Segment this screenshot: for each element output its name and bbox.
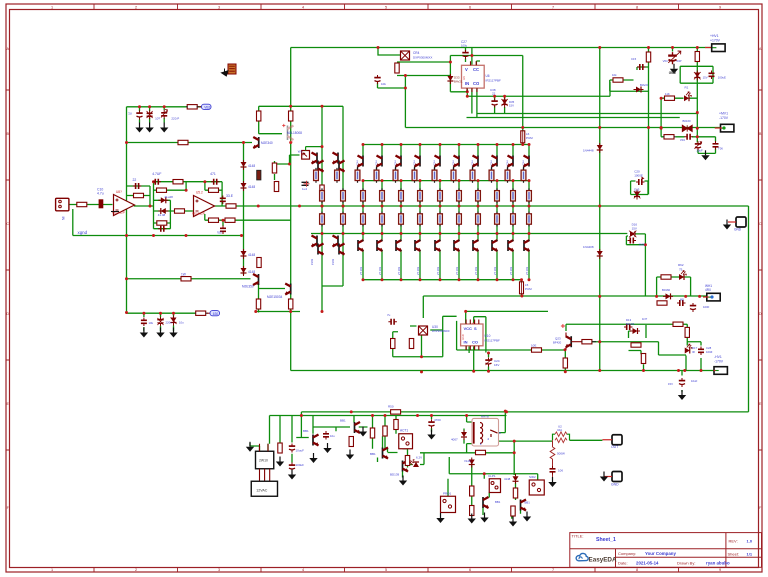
svg-text:R62: R62 (678, 263, 684, 267)
svg-text:BB1: BB1 (525, 501, 531, 505)
svg-text:1N4408: 1N4408 (583, 245, 594, 249)
svg-text:4148: 4148 (248, 164, 255, 168)
svg-text:1N?: 1N? (642, 317, 648, 321)
svg-text:C: C (759, 222, 762, 226)
svg-text:10uF: 10uF (691, 379, 698, 383)
svg-text:7: 7 (552, 568, 554, 572)
svg-text:10?: 10? (155, 117, 160, 121)
svg-text:2T94: 2T94 (357, 160, 359, 166)
svg-text:1N4448: 1N4448 (583, 149, 594, 153)
svg-text:+170V: +170V (710, 39, 721, 43)
svg-text:3: 3 (218, 568, 220, 572)
svg-text:4148: 4148 (504, 477, 511, 481)
svg-text:2T94: 2T94 (395, 160, 397, 166)
svg-text:U8?: U8? (116, 190, 122, 194)
svg-text:7: 7 (552, 5, 554, 9)
svg-text:2T94: 2T94 (414, 160, 416, 166)
svg-text:1N93: 1N93 (310, 258, 314, 265)
svg-text:V04: V04 (663, 59, 668, 63)
svg-text:BB1: BB1 (495, 500, 501, 504)
svg-text:BB1: BB1 (340, 419, 346, 423)
svg-text:15V: 15V (668, 382, 673, 386)
svg-text:22: 22 (133, 178, 137, 182)
svg-text:A: A (7, 47, 10, 51)
svg-text:+MV1: +MV1 (719, 112, 728, 116)
svg-text:2T94: 2T94 (472, 160, 474, 166)
svg-text:NE5532P: NE5532P (192, 212, 205, 216)
svg-text:75: 75 (679, 268, 683, 272)
svg-text:2T 193: 2T 193 (359, 266, 363, 275)
svg-text:GND: GND (669, 71, 677, 75)
svg-text:U10: U10 (461, 334, 465, 340)
svg-text:220.P: 220.P (171, 117, 179, 121)
svg-text:500W: 500W (557, 452, 565, 456)
svg-text:Sheet:: Sheet: (728, 552, 740, 557)
svg-text:12VAC: 12VAC (256, 489, 268, 493)
svg-text:R50: R50 (388, 405, 394, 409)
svg-text:100E: 100E (639, 243, 646, 247)
svg-text:MJE15034: MJE15034 (267, 295, 282, 299)
svg-text:2T94: 2T94 (376, 160, 378, 166)
svg-text:33.E: 33.E (226, 194, 234, 198)
svg-text:E: E (7, 402, 10, 406)
svg-text:1: 1 (51, 568, 53, 572)
svg-text:4: 4 (302, 568, 304, 572)
svg-text:Your Company: Your Company (645, 551, 676, 556)
svg-text:Date:: Date: (618, 560, 628, 565)
svg-text:EasyEDA: EasyEDA (589, 557, 617, 564)
svg-text:TITLE:: TITLE: (572, 534, 584, 539)
svg-text:11K: 11K (665, 92, 670, 96)
svg-text:IN: IN (61, 217, 65, 221)
svg-text:10k: 10k (149, 321, 154, 325)
svg-text:100uF: 100uF (296, 463, 305, 467)
svg-text:5: 5 (385, 568, 387, 572)
svg-text:1u4: 1u4 (302, 187, 307, 191)
svg-text:D15: D15 (634, 188, 640, 192)
svg-text:100uE: 100uE (718, 76, 726, 80)
svg-text:2T94: 2T94 (491, 160, 493, 166)
svg-text:15V: 15V (703, 76, 708, 80)
svg-text:CLP1: CLP1 (488, 474, 496, 478)
svg-text:9: 9 (719, 5, 721, 9)
svg-text:-170V: -170V (719, 116, 729, 120)
svg-text:4.7UF: 4.7UF (152, 172, 161, 176)
svg-text:4R0: 4R0 (705, 288, 711, 292)
svg-text:10u: 10u (330, 434, 335, 438)
svg-text:2T 193: 2T 193 (474, 266, 478, 275)
svg-text:IR2117PBF: IR2117PBF (485, 339, 500, 343)
svg-text:B0160: B0160 (683, 119, 692, 123)
svg-text:CC: CC (473, 67, 479, 72)
svg-text:A: A (759, 47, 762, 51)
svg-text:1u: 1u (128, 111, 132, 115)
svg-text:+HV1: +HV1 (710, 34, 719, 38)
svg-text:VB2: VB2 (204, 105, 210, 109)
svg-text:B: B (759, 132, 762, 136)
svg-text:-170V: -170V (714, 360, 724, 364)
svg-text:8: 8 (636, 568, 638, 572)
svg-text:E: E (759, 402, 762, 406)
svg-text:BB1: BB1 (370, 452, 376, 456)
svg-text:BAV21: BAV21 (626, 322, 635, 326)
svg-text:GND: GND (611, 483, 619, 487)
svg-text:100F: 100F (703, 305, 710, 309)
svg-text:W1: W1 (298, 150, 303, 154)
svg-text:100u: 100u (461, 44, 468, 48)
svg-text:2T 193: 2T 193 (509, 266, 513, 275)
svg-text:2T94: 2T94 (523, 160, 525, 166)
svg-text:U6: U6 (486, 74, 490, 78)
svg-text:2T94: 2T94 (507, 160, 509, 166)
svg-text:CO: CO (473, 81, 480, 86)
svg-text:220u: 220u (166, 321, 173, 325)
svg-text:2T 193: 2T 193 (436, 266, 440, 275)
svg-text:REV:: REV: (729, 539, 738, 544)
svg-text:-HV1: -HV1 (714, 355, 722, 359)
svg-text:BF420: BF420 (553, 341, 562, 345)
svg-text:2T 193: 2T 193 (525, 266, 529, 275)
svg-text:DXP9300MXX: DXP9300MXX (413, 56, 432, 60)
svg-text:DXP9300M00: DXP9300M00 (432, 329, 450, 333)
svg-text:2W10: 2W10 (259, 459, 268, 463)
svg-text:IN: IN (465, 81, 469, 86)
svg-text:D: D (759, 312, 762, 316)
svg-text:BAV21: BAV21 (640, 83, 649, 87)
svg-text:6: 6 (469, 568, 471, 572)
svg-text:10ouF: 10ouF (296, 449, 305, 453)
svg-text:2T 193: 2T 193 (378, 266, 382, 275)
svg-text:106: 106 (558, 469, 563, 473)
svg-text:V148: V148 (464, 459, 471, 463)
svg-text:U10: U10 (485, 334, 491, 338)
svg-text:15V: 15V (509, 104, 514, 108)
svg-text:R1: R1 (685, 86, 689, 90)
svg-text:1: 1 (51, 5, 53, 9)
svg-text:2T 193: 2T 193 (455, 266, 459, 275)
svg-text:9: 9 (719, 568, 721, 572)
svg-text:Company:: Company: (618, 551, 636, 556)
svg-text:OUT: OUT (611, 445, 618, 449)
svg-text:U5.2: U5.2 (196, 191, 203, 195)
svg-text:100Z: 100Z (706, 350, 713, 354)
svg-text:xgnd: xgnd (78, 230, 88, 235)
svg-text:B: B (7, 132, 10, 136)
svg-text:22: 22 (492, 92, 496, 96)
svg-text:BD139: BD139 (390, 473, 400, 477)
svg-text:PUM: PUM (525, 287, 532, 291)
svg-text:41.48: 41.48 (158, 213, 166, 217)
svg-text:2: 2 (135, 5, 137, 9)
svg-text:IR2117PBF: IR2117PBF (486, 79, 501, 83)
svg-text:CO: CO (472, 340, 478, 345)
svg-text:1N93: 1N93 (331, 258, 335, 265)
svg-text:3: 3 (218, 5, 220, 9)
svg-text:C15: C15 (631, 57, 637, 61)
svg-text:SID2: SID2 (529, 475, 536, 479)
svg-text:PRO1: PRO1 (443, 492, 452, 496)
svg-text:1/1: 1/1 (747, 552, 753, 557)
svg-text:CR4: CR4 (413, 51, 420, 55)
svg-text:PUM: PUM (526, 136, 533, 140)
svg-text:4700: 4700 (434, 418, 441, 422)
svg-text:B0160: B0160 (662, 288, 671, 292)
svg-text:MB: MB (680, 298, 684, 302)
svg-text:BAV21: BAV21 (454, 79, 463, 83)
svg-text:IR: IR (692, 350, 695, 354)
svg-text:3JA: 3JA (557, 428, 562, 432)
svg-text:Drawn By:: Drawn By: (677, 560, 695, 565)
svg-text:10E: 10E (531, 344, 536, 348)
svg-text:2T94: 2T94 (453, 160, 455, 166)
svg-text:4.7u: 4.7u (97, 192, 104, 196)
svg-text:8: 8 (636, 5, 638, 9)
svg-text:Sheet_1: Sheet_1 (596, 537, 616, 543)
svg-text:2021-05-14: 2021-05-14 (636, 560, 659, 565)
svg-text:V04: V04 (680, 138, 685, 142)
svg-text:2T 193: 2T 193 (397, 266, 401, 275)
svg-text:10u: 10u (179, 321, 184, 325)
svg-text:6: 6 (469, 5, 471, 9)
svg-text:4: 4 (302, 5, 304, 9)
svg-text:2T94: 2T94 (434, 160, 436, 166)
svg-text:1.0: 1.0 (747, 539, 753, 544)
svg-text:630: 630 (213, 312, 219, 316)
svg-text:4148: 4148 (248, 185, 255, 189)
svg-text:2: 2 (135, 568, 137, 572)
svg-text:to2: to2 (218, 231, 223, 235)
svg-text:RAY8: RAY8 (481, 415, 489, 419)
svg-text:15V: 15V (632, 226, 637, 230)
svg-text:B: B (499, 431, 501, 435)
svg-text:2T 193: 2T 193 (493, 266, 497, 275)
svg-text:VCC: VCC (464, 326, 473, 331)
svg-text:41u48: 41u48 (164, 195, 173, 199)
svg-text:C: C (6, 222, 9, 226)
svg-text:04P: 04P (677, 59, 682, 63)
svg-text:10k: 10k (612, 73, 617, 77)
svg-text:BB1: BB1 (303, 429, 309, 433)
svg-text:MJE350: MJE350 (242, 285, 254, 289)
svg-text:V: V (465, 67, 468, 72)
svg-text:5: 5 (385, 5, 387, 9)
svg-text:ryan abubo: ryan abubo (706, 560, 730, 565)
svg-text:GND: GND (734, 228, 742, 232)
svg-text:MJE340: MJE340 (261, 141, 273, 145)
svg-text:MJL18008: MJL18008 (287, 131, 302, 135)
svg-text:D: D (6, 312, 9, 316)
svg-text:10uF: 10uF (696, 149, 703, 153)
svg-text:4148: 4148 (248, 253, 255, 257)
svg-text:4007: 4007 (451, 438, 458, 442)
svg-text:7u: 7u (387, 313, 391, 317)
svg-text:T06: T06 (718, 147, 723, 151)
svg-text:16V: 16V (494, 363, 499, 367)
svg-text:1000E: 1000E (634, 173, 643, 177)
svg-text:S: S (474, 326, 477, 331)
svg-text:6.2V: 6.2V (416, 456, 422, 460)
svg-text:ACT1: ACT1 (400, 429, 408, 433)
svg-text:10k: 10k (381, 82, 386, 86)
svg-text:471: 471 (210, 172, 216, 176)
svg-text:2T 193: 2T 193 (416, 266, 420, 275)
svg-text:1W: 1W (181, 273, 186, 277)
